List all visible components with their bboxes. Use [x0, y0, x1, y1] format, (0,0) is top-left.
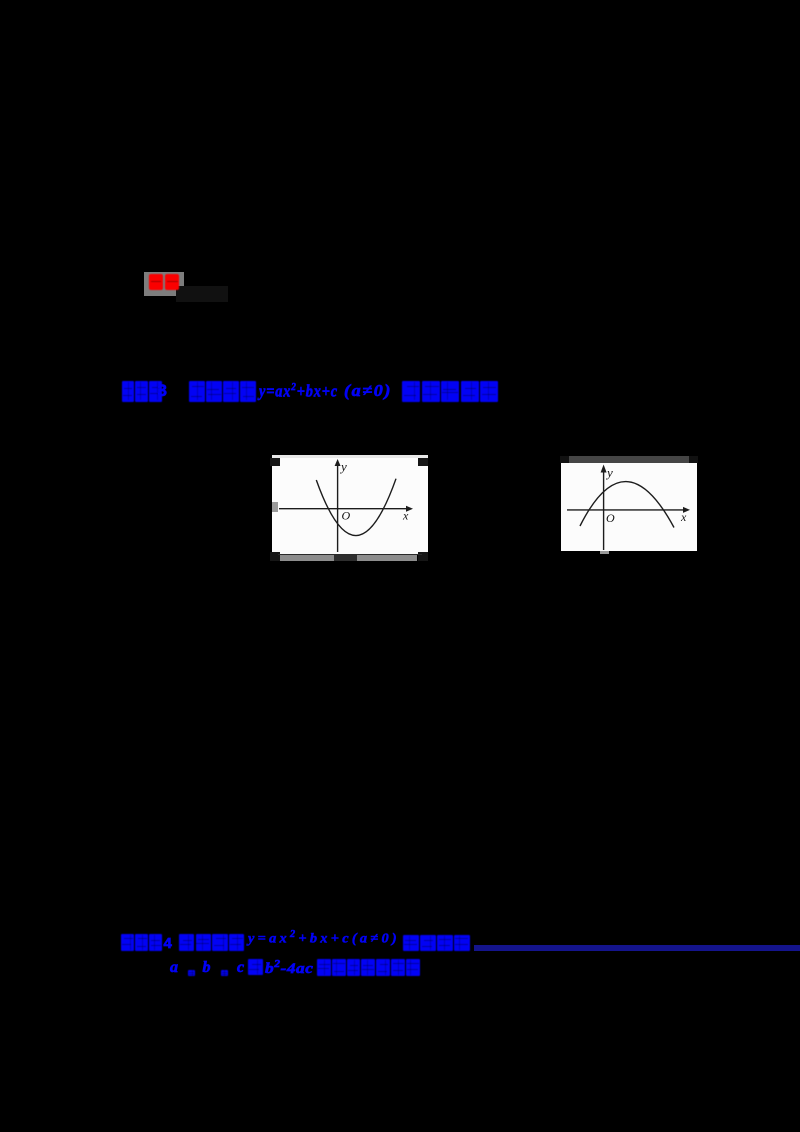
svg-text:O: O	[342, 509, 351, 523]
svg-text:y: y	[605, 465, 613, 480]
svg-text:x: x	[680, 510, 687, 524]
svg-text:O: O	[606, 511, 615, 525]
svg-text:y: y	[339, 459, 347, 474]
svg-text:x: x	[402, 509, 409, 523]
